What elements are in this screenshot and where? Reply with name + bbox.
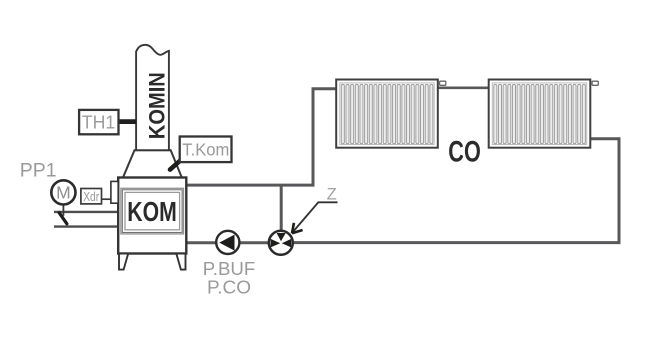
svg-text:P.CO: P.CO (207, 278, 251, 298)
motor M (damper actuator PP1) (51, 180, 75, 204)
pipe: radiator 2 return down and back to valve (291, 139, 619, 243)
pipe: boiler supply to riser and radiator 1 inlet (186, 89, 338, 185)
svg-text:CO: CO (448, 136, 481, 169)
wire: Xdr connector (102, 198, 112, 200)
valve Z (3-way) (269, 231, 293, 255)
radiator 2 (489, 80, 591, 148)
svg-text:PP1: PP1 (20, 160, 57, 182)
pipe: boiler return through pump to valve (186, 241, 270, 244)
svg-text:KOM: KOM (127, 196, 177, 227)
damper tick (59, 213, 67, 224)
sensor stub T.Kom on hood slope (170, 160, 181, 169)
svg-text:M: M (56, 183, 71, 203)
pipe: link between radiator 1 and radiator 2 (437, 87, 490, 90)
pipe: tee drop from supply to valve Z (280, 185, 283, 241)
svg-text:Xdr: Xdr (83, 190, 99, 204)
hood (boiler top trapezoid) (123, 150, 182, 177)
boiler body KOM (118, 178, 186, 254)
wire: air intake line upper (54, 211, 118, 213)
pump P.BUF/P.CO (216, 231, 239, 254)
box Xdr (81, 189, 102, 204)
boiler door middle frame (122, 190, 182, 233)
radiator 1 air vent (440, 81, 446, 85)
sensor box T.Kom (180, 137, 232, 163)
label Z with leader arrow (292, 186, 338, 234)
svg-text:T.Kom: T.Kom (182, 140, 229, 160)
sensor box TH1 (79, 110, 136, 134)
chimney body (136, 45, 169, 150)
svg-text:TH1: TH1 (82, 112, 116, 132)
boiler leg right (176, 254, 185, 270)
svg-text:P.BUF: P.BUF (203, 259, 256, 279)
wire: M actuator stem (62, 204, 64, 216)
boiler door inner frame (125, 192, 180, 229)
radiator 1 (336, 80, 438, 148)
damper tab on boiler left (111, 181, 118, 203)
boiler door outer frame (121, 188, 184, 234)
wire: air intake line lower (54, 225, 118, 227)
radiator 2 air vent (592, 81, 598, 85)
svg-text:Z: Z (327, 186, 337, 204)
hood top edge over chimney base (135, 149, 171, 151)
boiler leg left (119, 254, 128, 270)
svg-text:KOMIN: KOMIN (145, 72, 170, 139)
